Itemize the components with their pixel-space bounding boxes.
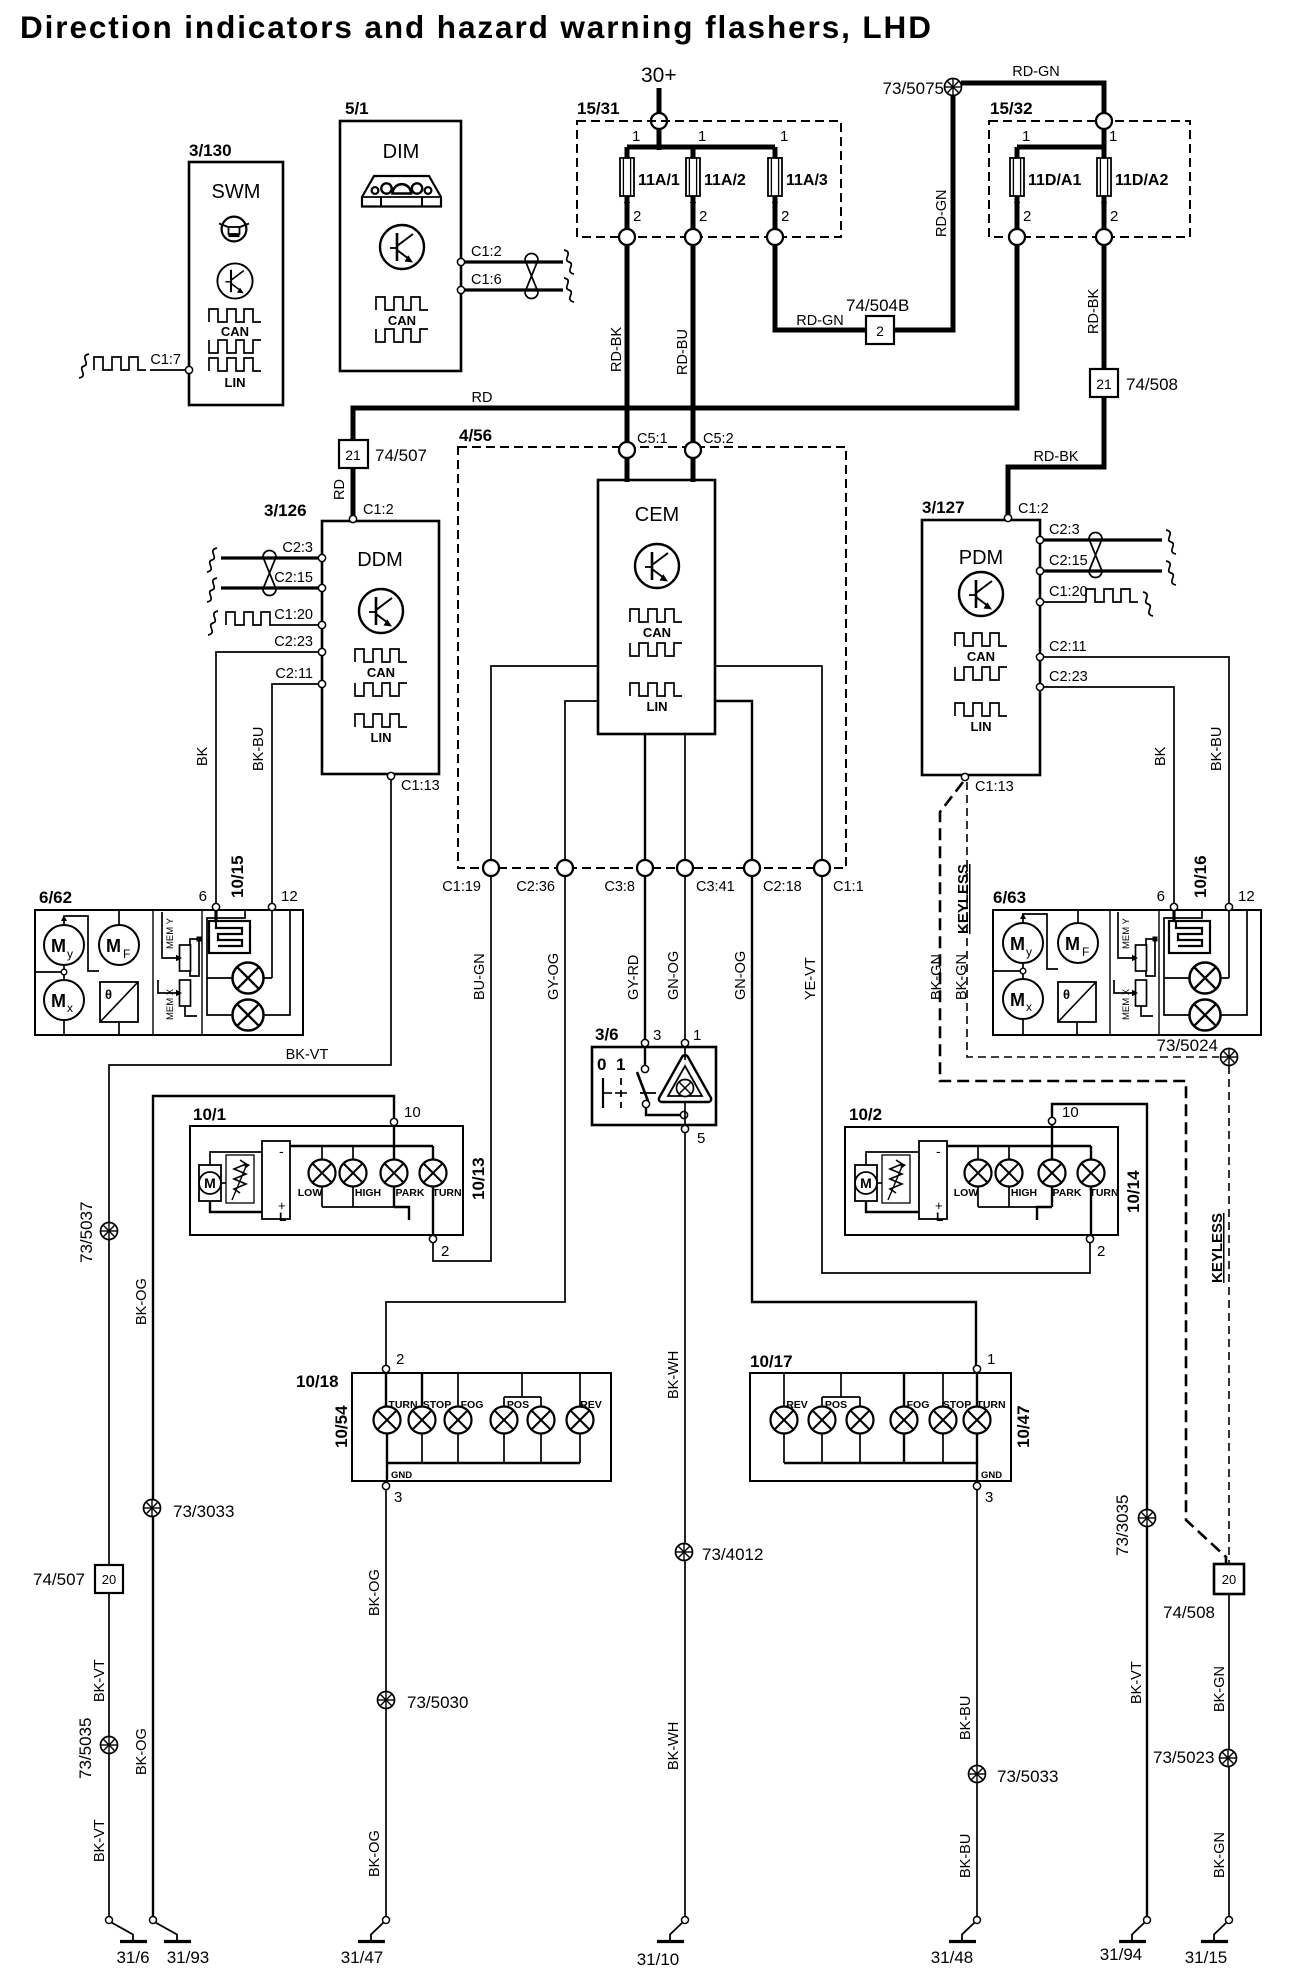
wire BK from DDM C2:23 to 6/62 pin 6 bbox=[216, 652, 318, 903]
svg-text:1: 1 bbox=[698, 128, 706, 145]
svg-text:BK-BU: BK-BU bbox=[1209, 727, 1225, 771]
svg-text:73/3035: 73/3035 bbox=[1113, 1495, 1132, 1556]
svg-text:BK-GN: BK-GN bbox=[954, 954, 970, 1000]
lamp HIGH beam right bbox=[996, 1160, 1023, 1187]
svg-text:θ: θ bbox=[1063, 987, 1070, 1002]
wire motor bottom feed bbox=[866, 1201, 919, 1212]
svg-text:RD-GN: RD-GN bbox=[934, 189, 950, 237]
wire CEM C1:19 bbox=[491, 666, 598, 861]
wire lamp bus 10/1 bbox=[290, 1145, 433, 1147]
svg-text:BK-OG: BK-OG bbox=[134, 1278, 150, 1325]
svg-text:3: 3 bbox=[394, 1489, 402, 1506]
lamp mirror turn repeater 2 bbox=[232, 999, 263, 1030]
svg-text:2: 2 bbox=[699, 208, 707, 225]
ground 31/6 bbox=[106, 1917, 148, 1942]
pin DIM C1:6 bbox=[457, 286, 464, 293]
leveling motor M bbox=[199, 1165, 221, 1201]
headlamp assembly 10/2 bbox=[845, 1127, 1118, 1235]
svg-text:31/15: 31/15 bbox=[1185, 1948, 1228, 1967]
wire fuse 11D/A1 branch bbox=[1015, 147, 1020, 237]
svg-text:C1:6: C1:6 bbox=[471, 272, 502, 288]
svg-text:RD-BK: RD-BK bbox=[1033, 449, 1078, 465]
wire motor top feed bbox=[210, 1152, 262, 1165]
svg-text:BK-GN: BK-GN bbox=[929, 954, 945, 1000]
svg-text:10/17: 10/17 bbox=[750, 1352, 793, 1371]
wire C1:7 LIN signal bbox=[150, 369, 189, 371]
motor My bbox=[44, 925, 84, 965]
wire RD bus from 11D/A1 to 74/507 bbox=[353, 245, 1017, 440]
svg-text:PDM: PDM bbox=[959, 547, 1003, 569]
node C1:19 bbox=[483, 860, 499, 876]
svg-text:MEM Y: MEM Y bbox=[1121, 917, 1132, 949]
svg-text:C2:23: C2:23 bbox=[1049, 669, 1088, 685]
svg-text:GND: GND bbox=[981, 1470, 1002, 1481]
svg-text:C2:11: C2:11 bbox=[1049, 639, 1087, 655]
svg-text:10/16: 10/16 bbox=[1191, 855, 1210, 898]
motor MF bbox=[1058, 923, 1098, 963]
icon control unit K bbox=[635, 544, 679, 588]
wire GN-OG to 10/17 pin 1 bbox=[752, 876, 976, 1365]
svg-text:10: 10 bbox=[404, 1104, 421, 1121]
svg-text:C1:1: C1:1 bbox=[833, 879, 864, 895]
svg-text:STOP: STOP bbox=[423, 1399, 451, 1411]
svg-text:LOW: LOW bbox=[298, 1187, 323, 1199]
wire lamp returns 10/1 bbox=[321, 1187, 323, 1207]
wire KEYLESS dashed from 73/5024 to 74/508 bbox=[1228, 1066, 1230, 1563]
svg-text:2: 2 bbox=[633, 208, 641, 225]
pin PDM C1:13 bbox=[961, 773, 968, 780]
control module PDM 3/127 bbox=[922, 520, 1040, 775]
lamp LOW beam right bbox=[965, 1160, 992, 1187]
fuse 11A/2 bbox=[686, 158, 700, 196]
wire CEM C1:1 bbox=[715, 666, 822, 861]
svg-text:DIM: DIM bbox=[383, 141, 420, 163]
svg-text:CAN: CAN bbox=[967, 649, 995, 664]
wire GN-OG to 3/6 pin 1 bbox=[684, 876, 686, 1040]
wire BK-GN from 74/508 to ground 31/15 bbox=[1228, 1594, 1230, 1916]
lamp TURN right front bbox=[1078, 1160, 1105, 1187]
wire RD-BK to PDM C1:2 bbox=[1008, 397, 1104, 516]
svg-text:RD: RD bbox=[472, 390, 493, 406]
wire pin1 to triangle bbox=[684, 1047, 686, 1060]
pin DDM C1:20 bbox=[318, 621, 325, 628]
wire lamp bus 10/2 bbox=[947, 1145, 1091, 1147]
svg-text:-: - bbox=[279, 1143, 284, 1159]
svg-text:BK-BU: BK-BU bbox=[958, 1834, 974, 1878]
wire KEYLESS BK-GN dashed thin from PDM C1:13 bbox=[967, 782, 1219, 1057]
motor Mx bbox=[1003, 979, 1043, 1019]
wire fuse bus 15/32 bbox=[1017, 145, 1104, 150]
svg-text:x: x bbox=[67, 1001, 73, 1015]
potentiometer MEM X bbox=[1136, 980, 1147, 1006]
svg-text:10/54: 10/54 bbox=[332, 1405, 351, 1448]
heated mirror element bbox=[1058, 982, 1096, 1022]
svg-text:BK-VT: BK-VT bbox=[1129, 1661, 1145, 1704]
svg-text:BK-OG: BK-OG bbox=[134, 1728, 150, 1775]
wire DDM twisted pair bbox=[221, 556, 318, 559]
lamp PARK right bbox=[1039, 1160, 1066, 1187]
door mirror module 6/63 bbox=[993, 910, 1261, 1035]
lamp POS left 2 bbox=[528, 1407, 555, 1434]
svg-text:STOP: STOP bbox=[943, 1399, 971, 1411]
hazard switch 3/6 bbox=[592, 1047, 716, 1125]
ground 31/10 bbox=[657, 1917, 689, 1942]
svg-text:y: y bbox=[1026, 945, 1032, 959]
node C5:2 bbox=[685, 442, 701, 458]
icon control unit K bbox=[380, 225, 424, 269]
lamp STOP right bbox=[930, 1407, 957, 1434]
icon control unit K bbox=[959, 572, 1003, 616]
svg-text:3/130: 3/130 bbox=[189, 141, 232, 160]
ground 31/47 bbox=[358, 1917, 390, 1942]
svg-text:CAN: CAN bbox=[367, 665, 395, 680]
svg-text:3: 3 bbox=[985, 1489, 993, 1506]
svg-text:REV: REV bbox=[580, 1399, 602, 1411]
wire pin 10 to PARK lamp bbox=[393, 1122, 395, 1160]
icon control unit K bbox=[359, 589, 403, 633]
svg-text:C1:2: C1:2 bbox=[363, 502, 394, 518]
svg-text:RD-BK: RD-BK bbox=[1086, 289, 1102, 334]
svg-text:20: 20 bbox=[1222, 1572, 1236, 1587]
ground 31/93 bbox=[150, 1917, 192, 1942]
wire BK-OG to ground 31/47 bbox=[385, 1490, 387, 1916]
svg-text:HIGH: HIGH bbox=[355, 1187, 381, 1199]
control module DIM 5/1 bbox=[340, 121, 461, 371]
svg-text:10/15: 10/15 bbox=[228, 855, 247, 898]
svg-text:KEYLESS: KEYLESS bbox=[1209, 1213, 1226, 1283]
svg-text:73/5033: 73/5033 bbox=[997, 1767, 1058, 1786]
svg-text:31/47: 31/47 bbox=[341, 1948, 384, 1967]
icon CAN bus DDM bbox=[355, 649, 407, 662]
wire POS feeds bbox=[504, 1373, 541, 1407]
svg-text:21: 21 bbox=[1096, 376, 1112, 392]
svg-text:6: 6 bbox=[199, 888, 207, 905]
node C5:1 bbox=[619, 442, 635, 458]
splice 73/5030 bbox=[378, 1692, 395, 1709]
svg-text:C1:20: C1:20 bbox=[274, 607, 313, 623]
svg-text:LIN: LIN bbox=[371, 730, 392, 745]
pin 3/6 pin 1 bbox=[681, 1039, 688, 1046]
svg-text:C2:23: C2:23 bbox=[274, 634, 313, 650]
fuse 11D/A2 bbox=[1097, 158, 1111, 196]
wire lamp returns 10/17 bbox=[783, 1433, 785, 1463]
svg-text:YE-VT: YE-VT bbox=[803, 957, 819, 1000]
wire fuse 11D/A2 branch bbox=[1102, 147, 1107, 237]
svg-text:CAN: CAN bbox=[643, 625, 671, 640]
svg-text:10/1: 10/1 bbox=[193, 1105, 226, 1124]
svg-text:C2:36: C2:36 bbox=[516, 879, 555, 895]
potentiometer MEM Y bbox=[180, 945, 191, 971]
splice 73/5037 bbox=[101, 1223, 118, 1240]
svg-text:10: 10 bbox=[1062, 1104, 1079, 1121]
lamp PARK left bbox=[381, 1160, 408, 1187]
wire pin 12 to mirror lamp bbox=[271, 910, 273, 978]
leveling motor M bbox=[855, 1165, 877, 1201]
splice 73/3033 bbox=[144, 1500, 161, 1517]
wire mirror motors junction bbox=[35, 971, 64, 973]
node C1:1 bbox=[814, 860, 830, 876]
door mirror module 6/62 bbox=[35, 910, 303, 1035]
wire lamp returns 10/18 bbox=[386, 1433, 388, 1463]
wire BK-BU from PDM C2:11 to 6/63 pin 12 bbox=[1044, 657, 1229, 903]
wire DIM twisted pair bbox=[465, 260, 563, 263]
svg-text:KEYLESS: KEYLESS bbox=[955, 864, 972, 934]
svg-text:2: 2 bbox=[1023, 208, 1031, 225]
wire motor bottom feed bbox=[210, 1201, 262, 1212]
wire motor to resistor bbox=[877, 1182, 882, 1184]
splice 73/5033 bbox=[969, 1766, 986, 1783]
svg-text:73/5037: 73/5037 bbox=[77, 1202, 96, 1263]
icon LIN bus DDM bbox=[355, 714, 407, 727]
ground 31/48 bbox=[949, 1917, 981, 1942]
svg-text:POS: POS bbox=[507, 1399, 529, 1411]
svg-text:GY-OG: GY-OG bbox=[546, 953, 562, 1000]
wire MF to top bbox=[1077, 910, 1079, 923]
svg-text:6/62: 6/62 bbox=[39, 888, 72, 907]
fuse 11D/A1 bbox=[1010, 158, 1024, 196]
lamp REV left bbox=[567, 1407, 594, 1434]
svg-text:11D/A1: 11D/A1 bbox=[1028, 172, 1081, 189]
svg-text:6/63: 6/63 bbox=[993, 888, 1026, 907]
wire CEM C2:36 bbox=[565, 701, 598, 861]
pin 10/17 pin 1 bbox=[973, 1365, 980, 1372]
svg-text:BK-OG: BK-OG bbox=[367, 1830, 383, 1877]
lamp STOP left bbox=[409, 1407, 436, 1434]
connector 74/508 pin 21 bbox=[1090, 369, 1118, 397]
splice 73/5023 bbox=[1220, 1750, 1237, 1767]
lamp POS right 2 bbox=[847, 1407, 874, 1434]
wire fuse 11A/2 branch bbox=[691, 147, 696, 237]
svg-text:C1:13: C1:13 bbox=[975, 779, 1014, 795]
wire STOP feed bbox=[421, 1373, 423, 1407]
wire RD-GN from fuse 11A/3 to 74/504B bbox=[775, 245, 866, 330]
svg-text:θ: θ bbox=[105, 987, 112, 1002]
pin 3/6 pin 3 bbox=[641, 1039, 648, 1046]
wire fuse 11A/3 branch bbox=[773, 147, 778, 237]
wire lamp returns 10/2 bbox=[977, 1187, 979, 1207]
svg-text:C2:3: C2:3 bbox=[1049, 522, 1080, 538]
svg-text:RD-GN: RD-GN bbox=[796, 313, 844, 329]
wire 30+ feed bbox=[657, 88, 662, 150]
svg-text:SWM: SWM bbox=[212, 181, 261, 203]
svg-text:5/1: 5/1 bbox=[345, 99, 369, 118]
svg-text:3/126: 3/126 bbox=[264, 501, 307, 520]
svg-text:2: 2 bbox=[1097, 1243, 1105, 1260]
wire BK-OG ground run from 10/1 pin 10 bbox=[153, 1096, 394, 1916]
svg-text:F: F bbox=[1082, 945, 1089, 959]
control module SWM 3/130 bbox=[189, 162, 283, 405]
svg-text:12: 12 bbox=[281, 888, 298, 905]
svg-text:LIN: LIN bbox=[647, 699, 668, 714]
heated mirror element bbox=[100, 982, 138, 1022]
svg-text:74/508: 74/508 bbox=[1163, 1603, 1215, 1622]
svg-text:11A/3: 11A/3 bbox=[786, 172, 828, 189]
icon LIN bus CEM bbox=[630, 683, 682, 696]
svg-text:2: 2 bbox=[876, 323, 884, 339]
svg-text:M: M bbox=[1065, 934, 1080, 954]
leveling regulator bbox=[262, 1141, 290, 1219]
svg-text:M: M bbox=[1010, 934, 1025, 954]
icon CAN bus DIM bbox=[376, 297, 428, 310]
connector 74/507 pin 20 bbox=[95, 1565, 123, 1593]
svg-text:BU-GN: BU-GN bbox=[472, 953, 488, 1000]
wire TURN feed bbox=[385, 1373, 387, 1407]
svg-text:BK-WH: BK-WH bbox=[666, 1722, 682, 1770]
node C2:36 bbox=[557, 860, 573, 876]
splice 73/5024 bbox=[1221, 1049, 1238, 1066]
svg-text:12: 12 bbox=[1238, 888, 1255, 905]
wire PDM C1:20 signal bbox=[1044, 601, 1086, 603]
pin 10/1 pin 2 bbox=[429, 1235, 436, 1242]
svg-text:1: 1 bbox=[616, 1055, 625, 1074]
pin PDM C1:20 bbox=[1036, 598, 1043, 605]
node fuse 11D/A1 output bbox=[1009, 229, 1025, 245]
splice 73/5035 bbox=[101, 1737, 118, 1754]
svg-text:10/14: 10/14 bbox=[1124, 1170, 1143, 1213]
svg-text:31/6: 31/6 bbox=[116, 1948, 149, 1967]
svg-text:M: M bbox=[51, 936, 66, 956]
fuse box 15/32 bbox=[989, 121, 1190, 237]
svg-text:2: 2 bbox=[781, 208, 789, 225]
svg-text:74/507: 74/507 bbox=[375, 446, 427, 465]
svg-text:M: M bbox=[51, 991, 66, 1011]
svg-text:3: 3 bbox=[653, 1027, 661, 1044]
potentiometer MEM X bbox=[180, 980, 191, 1006]
svg-text:73/5075: 73/5075 bbox=[883, 79, 944, 98]
svg-text:TURN: TURN bbox=[1089, 1187, 1118, 1199]
wire RD-BU to C5:2 bbox=[691, 245, 696, 443]
pin DDM C1:13 bbox=[387, 772, 394, 779]
wire CEM C3:8 bbox=[644, 734, 646, 861]
wire POS feeds bbox=[822, 1373, 860, 1407]
pin 10/18 pin 3 bbox=[382, 1482, 389, 1489]
svg-text:LIN: LIN bbox=[971, 719, 992, 734]
svg-text:BK-VT: BK-VT bbox=[286, 1047, 329, 1063]
wire lamp bus left bbox=[1164, 911, 1202, 1015]
svg-text:DDM: DDM bbox=[357, 549, 403, 571]
svg-text:C5:2: C5:2 bbox=[703, 431, 734, 447]
wire C5:2 into CEM bbox=[691, 458, 696, 482]
svg-text:C2:15: C2:15 bbox=[274, 570, 313, 586]
lamp TURN left front bbox=[420, 1160, 447, 1187]
pin DDM C2:3 bbox=[318, 554, 325, 561]
wire element to bottom bbox=[1076, 1022, 1078, 1035]
wire motor to resistor bbox=[221, 1182, 226, 1184]
wire STOP feed bbox=[942, 1373, 944, 1407]
wire BK from PDM C2:23 to 6/63 pin 6 bbox=[1044, 687, 1174, 903]
icon LIN bus SWM bbox=[209, 358, 261, 371]
wire RD-BK to C5:1 bbox=[625, 245, 630, 443]
svg-text:GY-RD: GY-RD bbox=[626, 955, 642, 1000]
svg-text:5: 5 bbox=[697, 1130, 705, 1147]
wire My feed bbox=[64, 916, 99, 971]
svg-text:73/3033: 73/3033 bbox=[173, 1502, 234, 1521]
svg-text:11D/A2: 11D/A2 bbox=[1115, 172, 1168, 189]
svg-text:C1:20: C1:20 bbox=[1049, 584, 1088, 600]
svg-text:M: M bbox=[106, 936, 121, 956]
pin DDM C2:11 bbox=[318, 680, 325, 687]
svg-text:10/18: 10/18 bbox=[296, 1372, 339, 1391]
wire lamp bus right bbox=[1221, 911, 1247, 1015]
wire BK-VT ground run from 10/2 pin 10 bbox=[1052, 1104, 1147, 1916]
connector 74/507 pin 21 bbox=[339, 440, 368, 468]
node fuse 11A/3 output bbox=[767, 229, 783, 245]
pin PDM C2:3 bbox=[1036, 536, 1043, 543]
svg-text:LOW: LOW bbox=[954, 1187, 979, 1199]
svg-text:31/48: 31/48 bbox=[931, 1948, 974, 1967]
svg-text:BK-GN: BK-GN bbox=[1212, 1832, 1228, 1878]
node C3:41 bbox=[677, 860, 693, 876]
splice 73/4012 bbox=[676, 1544, 693, 1561]
svg-text:FOG: FOG bbox=[461, 1399, 484, 1411]
node C2:18 bbox=[744, 860, 760, 876]
svg-text:BK-VT: BK-VT bbox=[92, 1659, 108, 1702]
pin 6/62 pin 6 bbox=[212, 903, 219, 910]
svg-text:C2:11: C2:11 bbox=[275, 666, 313, 682]
wire MF to top bbox=[118, 910, 120, 925]
svg-text:L: L bbox=[279, 1210, 286, 1224]
svg-text:GN-OG: GN-OG bbox=[666, 951, 682, 1000]
wire pin 6 feed to heater bbox=[1172, 907, 1175, 921]
svg-text:BK: BK bbox=[1153, 746, 1169, 766]
control module DDM 3/126 bbox=[322, 521, 439, 774]
wire KEYLESS BK-GN dashed thick from PDM C1:13 bbox=[940, 782, 1226, 1563]
pin 6/63 pin 12 bbox=[1225, 903, 1232, 910]
icon instrument cluster bbox=[362, 176, 441, 207]
svg-text:30+: 30+ bbox=[641, 64, 677, 87]
connector 74/508 pin 20 bbox=[1214, 1564, 1244, 1594]
wire pin 6 feed to heater bbox=[214, 907, 217, 921]
svg-text:RD: RD bbox=[332, 479, 348, 500]
ground 31/15 bbox=[1201, 1917, 1233, 1942]
svg-text:C2:3: C2:3 bbox=[282, 540, 313, 556]
connector box 4/56 bbox=[458, 447, 846, 868]
svg-text:31/93: 31/93 bbox=[167, 1948, 210, 1967]
motor My bbox=[1003, 923, 1043, 963]
svg-text:3/127: 3/127 bbox=[922, 498, 965, 517]
svg-text:0: 0 bbox=[597, 1055, 606, 1074]
svg-text:74/504B: 74/504B bbox=[846, 296, 909, 315]
icon control unit K bbox=[217, 263, 252, 298]
pin DDM C2:23 bbox=[318, 648, 325, 655]
ground 31/94 bbox=[1119, 1917, 1151, 1942]
wire BK-BU to ground 31/48 bbox=[976, 1490, 978, 1916]
svg-text:BK-WH: BK-WH bbox=[666, 1351, 682, 1399]
wire Mx to bottom bbox=[1022, 1019, 1024, 1035]
svg-text:20: 20 bbox=[102, 1572, 116, 1587]
pin 10/2 pin 2 bbox=[1086, 1235, 1093, 1242]
wire GY-RD to 3/6 pin 3 bbox=[644, 876, 646, 1040]
node C3:8 bbox=[637, 860, 653, 876]
pin DIM C1:2 bbox=[457, 258, 464, 265]
svg-text:C1:7: C1:7 bbox=[150, 352, 181, 368]
fuse box 15/31 bbox=[577, 121, 841, 237]
node splice at 15/32 top bbox=[1096, 113, 1112, 129]
lamp TURN right rear bbox=[964, 1407, 991, 1434]
svg-text:F: F bbox=[123, 947, 130, 961]
svg-text:C1:2: C1:2 bbox=[1018, 501, 1049, 517]
pin 6/62 pin 12 bbox=[268, 903, 275, 910]
svg-text:TURN: TURN bbox=[432, 1187, 461, 1199]
wire BU-GN to 10/1 pin 2 bbox=[433, 876, 491, 1261]
svg-text:MEM Y: MEM Y bbox=[165, 917, 176, 949]
icon steering wheel bbox=[219, 217, 249, 242]
svg-text:2: 2 bbox=[396, 1351, 404, 1368]
wire GY-OG to 10/18 pin 2 bbox=[386, 876, 565, 1365]
svg-text:3/6: 3/6 bbox=[595, 1025, 619, 1044]
fuse 11A/3 bbox=[768, 158, 782, 196]
svg-text:-: - bbox=[936, 1143, 941, 1159]
